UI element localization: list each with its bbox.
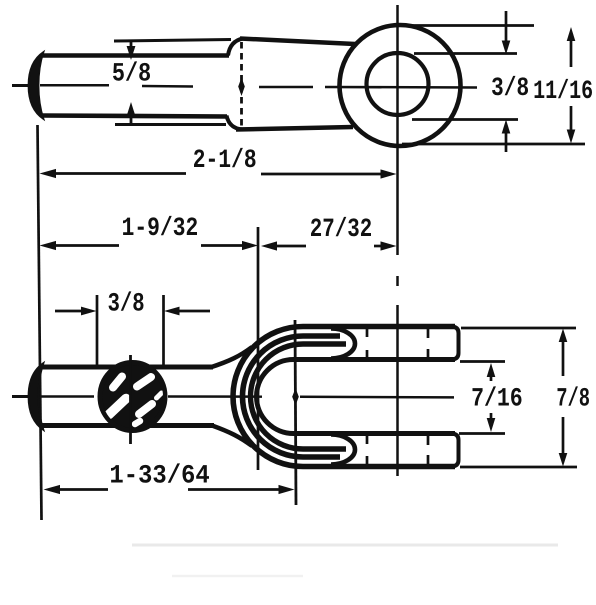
lower tine curled tip: [331, 435, 355, 465]
fork terminal center line horizontal: [41, 395, 454, 398]
extension line wire right: [162, 295, 165, 366]
extension line ring top: [412, 24, 534, 27]
dimension label 3/8: [492, 76, 528, 95]
extension line hole bottom: [412, 118, 518, 121]
fork terminal center line stub left: [12, 395, 33, 398]
fork slot edges and rounded end: [257, 360, 456, 434]
dimension label 27/32: [311, 217, 371, 236]
dimension 1-9/32 line right: [201, 244, 245, 247]
fork slot seam diamond: [292, 388, 299, 406]
lower tine right end: [451, 434, 459, 467]
fork outer periphery: [233, 327, 455, 467]
ring terminal crimp flare top: [228, 39, 243, 56]
ring terminal center line stub left: [12, 84, 30, 87]
ring terminal crimp seam dashed line: [240, 42, 243, 127]
dimension label 1-33/64: [111, 463, 209, 482]
dimension 1-33/64 line right: [188, 488, 282, 491]
dimension 3/8 wire line left: [55, 310, 84, 313]
dimension 5/8 bottom tail line: [115, 123, 226, 126]
dimension 2-1/8 line left: [52, 172, 186, 175]
ring terminal barrel bottom edge: [41, 116, 227, 117]
wire circle vertical center line: [129, 355, 132, 444]
extension line ring bottom: [402, 143, 585, 146]
fork flange outer curve: [243, 336, 341, 457]
dimension label 1-9/32: [123, 216, 197, 235]
dimension 11/16 top arrow: [570, 40, 573, 67]
dimension 11/16 bottom arrow: [570, 106, 573, 131]
dimension 1-9/32 line left: [52, 244, 119, 247]
ring terminal crimp seam diamond: [238, 78, 245, 97]
upper tine curled tip: [331, 329, 355, 359]
ring hole inner circle: [367, 53, 429, 115]
dimension 7/8 bottom arrow: [562, 417, 565, 453]
ring terminal barrel top edge: [41, 53, 229, 58]
ring outer circle: [340, 25, 461, 146]
extension line slot bottom: [459, 432, 505, 435]
dimension 3/8 wire line right: [177, 310, 210, 313]
dimension 7/8 top arrow: [562, 341, 565, 376]
ring vertical center line: [396, 5, 399, 476]
dimension 27/32 line left: [274, 245, 306, 248]
fork terminal transition bottom: [212, 426, 252, 447]
dimension 5/8 top tail line: [114, 40, 231, 42]
dimension label 3/8 wire: [109, 291, 144, 310]
dimension 3/8 hole top arrow: [505, 11, 508, 42]
ring terminal barrel left cap: [29, 52, 44, 119]
ring terminal crimp flare bottom: [227, 116, 243, 130]
fork flange inner curve: [251, 344, 347, 449]
dimension 2-1/8 line right: [261, 173, 384, 176]
dimension label 7/8: [558, 386, 590, 405]
fork bend center extension line: [257, 227, 260, 470]
dimension 3/8 hole bottom arrow: [505, 133, 508, 152]
dimension 7/16 top arrow: [490, 374, 493, 381]
dimension 7/16 bottom arrow: [490, 413, 493, 419]
extension line left overall: [38, 125, 42, 520]
ring terminal tongue top edge: [240, 39, 355, 45]
fork terminal barrel bottom edge: [41, 423, 214, 428]
upper tine right end: [451, 327, 459, 360]
dimension 5/8 top arrow: [130, 41, 133, 49]
extension line slot top: [460, 360, 505, 363]
fork terminal barrel left cap: [29, 363, 44, 430]
dimension 1-33/64 line left: [57, 488, 108, 491]
wire cross-section hatched circle: [100, 363, 165, 431]
dimension label 2-1/8: [194, 148, 256, 167]
dimension 27/32 line right: [374, 245, 384, 248]
extension line fork top: [461, 327, 576, 330]
serration ticks upper tine: [367, 328, 428, 358]
extension line hole top: [414, 52, 517, 55]
scan smudge lines bottom: [132, 544, 558, 547]
fork terminal transition top: [210, 347, 252, 368]
dimension 5/8 bottom arrow: [130, 114, 133, 125]
dimension label 11/16: [535, 79, 593, 98]
fork slot end extension line: [295, 320, 296, 505]
ring terminal center line horizontal: [40, 85, 477, 87]
dimension label 7/16: [473, 386, 522, 405]
extension line fork bottom: [460, 466, 577, 469]
serration ticks lower tine: [367, 435, 428, 465]
extension line wire left: [96, 295, 99, 366]
ring terminal tongue bottom edge: [236, 127, 353, 130]
dimension label 5/8: [113, 61, 150, 80]
fork terminal barrel top edge: [41, 365, 213, 370]
